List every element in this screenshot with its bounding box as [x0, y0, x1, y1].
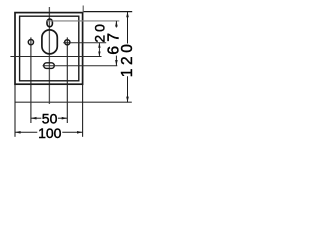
- dimension 50 line: [31, 117, 41, 119]
- dimension 67 bottom arrow: [115, 60, 118, 66]
- centerline (vertical, gray): [48, 7, 50, 104]
- svg-text:67: 67: [106, 29, 123, 55]
- dimension 20 bottom arrow: [98, 52, 100, 57]
- bottom oval horizontal extension line: [43, 65, 118, 67]
- outer plate outline: [15, 13, 83, 85]
- left circle vertical extension line: [30, 37, 32, 123]
- right circle horizontal extension line: [63, 42, 106, 44]
- top oval hole: [47, 19, 52, 27]
- right circle hole: [65, 40, 70, 45]
- left extension line for 100 dim: [14, 85, 16, 137]
- lower horizontal line (fixture bottom): [15, 101, 132, 103]
- dimension 20 top arrow: [98, 43, 100, 48]
- dimension 120 top arrow: [126, 12, 129, 18]
- small vertical stub above plate top right: [82, 6, 84, 13]
- dimension 50 left arrow: [31, 117, 37, 120]
- dimension 120 line: [127, 12, 129, 44]
- left circle hole: [28, 40, 33, 45]
- right extension line for 100 dim: [82, 85, 84, 137]
- svg-text:20: 20: [92, 21, 108, 43]
- center slot (big obround): [42, 30, 57, 54]
- inner plate outline: [20, 16, 79, 81]
- dimension 120 bottom arrow: [126, 97, 129, 103]
- dimension 67 line: [115, 21, 117, 28]
- dimension 100 line: [15, 131, 37, 133]
- dimension 67 top arrow: [115, 21, 118, 27]
- dimension 50 right arrow: [62, 117, 68, 120]
- dimension 100 right arrow: [77, 131, 83, 134]
- top extension line from plate top edge: [83, 11, 132, 13]
- gray extension line from top hole center: [47, 20, 119, 22]
- right circle vertical extension line: [66, 37, 68, 123]
- dimension 100 left arrow: [15, 131, 21, 134]
- mid horizontal line (canopy edge): [10, 56, 101, 58]
- svg-text:100: 100: [38, 125, 62, 141]
- bottom oval hole: [44, 63, 55, 69]
- dimension 20 line: [98, 43, 100, 57]
